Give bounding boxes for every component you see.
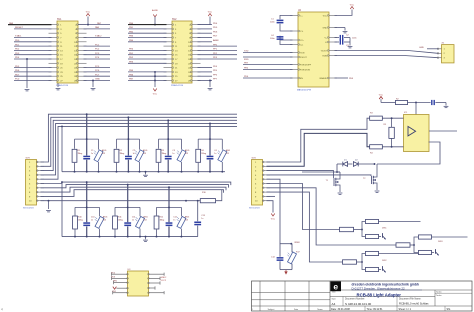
wire diode rail right [359, 163, 375, 165]
capacitor C15 [431, 100, 432, 105]
svg-text:VCC: VCC [153, 94, 158, 96]
svg-text:SIG 10X1G: SIG 10X1G [249, 208, 260, 210]
svg-text:INVALID: INVALID [319, 77, 327, 80]
svg-text:FORCEON: FORCEON [300, 69, 311, 71]
wire net PB1 [128, 28, 167, 30]
ground arrow AGND [285, 270, 287, 272]
pin V+ U2 [329, 37, 337, 39]
IC U3 [128, 271, 149, 296]
pin 6 SV2 [192, 32, 201, 34]
wire net PF7 [198, 80, 213, 82]
pin 11 SV2 [164, 45, 173, 47]
pin 3 SV4 [263, 170, 271, 172]
junction [361, 261, 363, 263]
resistor base DIS3 [396, 243, 410, 247]
photoresistor LDR2 [139, 139, 141, 150]
svg-text:Size:: Size: [332, 299, 337, 301]
svg-text:1Meg: 1Meg [160, 219, 165, 221]
svg-text:TXD: TXD [244, 51, 249, 53]
wire net PD4 [198, 24, 213, 26]
wire net PD2 to U3 [112, 273, 128, 275]
pin 27 SV2 [164, 80, 173, 82]
diode D1 [343, 162, 348, 167]
wire [348, 163, 353, 165]
resistor R1 1Meg [74, 139, 76, 149]
pin 18 SV2 [192, 58, 201, 60]
wire left drop [61, 126, 63, 171]
pin FORCEON U2 [290, 69, 298, 71]
junction [361, 229, 363, 231]
wire SV4 pin8 to stage B [267, 192, 343, 262]
resistor R12 1Meg [156, 207, 158, 215]
capacitor C1 [280, 15, 293, 19]
wire net PC5 [84, 67, 111, 69]
transistor Q2 BSS123 [371, 176, 373, 184]
wire bus line 5 [41, 126, 238, 179]
wire net PE3 [128, 62, 167, 64]
power symbol VCC (down) [271, 214, 275, 217]
wire lower bus line 2 [41, 185, 229, 188]
svg-text:4: 4 [1, 308, 3, 312]
svg-text:Title:: Title: [332, 291, 337, 294]
wire net AREF [198, 41, 213, 43]
wire net TXD [243, 52, 293, 54]
pin 22 SV2 [192, 67, 201, 69]
wire net PB7 [128, 80, 167, 82]
svg-text:GND2: GND2 [161, 277, 168, 279]
wire net PB0 [128, 24, 167, 26]
wire to transistor [379, 269, 382, 271]
svg-text:VCC: VCC [379, 95, 384, 97]
svg-text:R1OUT: R1OUT [300, 57, 308, 59]
pin 19 SV1 [49, 62, 58, 64]
pin C2+ U2 [290, 39, 298, 41]
wire group R12 top [157, 206, 182, 208]
svg-text:1n: 1n [91, 219, 93, 221]
wire to ground [48, 201, 50, 209]
svg-text:A905: A905 [185, 216, 189, 219]
wire net PA6 [84, 28, 111, 30]
svg-text:VCC2: VCC2 [161, 280, 167, 282]
connector SV1 [57, 21, 78, 83]
resistor base2 DIS2 [366, 267, 379, 271]
junction [197, 171, 199, 173]
wire net PF0 [198, 45, 238, 47]
pin 19 SV2 [164, 62, 173, 64]
photoresistor LDR11 [139, 207, 141, 216]
svg-text:Document Number:: Document Number: [345, 298, 365, 301]
ground [57, 83, 59, 87]
pin 24 SV2 [192, 71, 201, 73]
junction [48, 200, 50, 202]
resistor pullup DIS3 [419, 235, 432, 239]
wire net PE2 [128, 58, 167, 60]
svg-text:1Meg: 1Meg [120, 153, 125, 155]
resistor R11 1Meg [114, 207, 116, 215]
pin 6 SV4 [263, 183, 271, 185]
pin 5 SV1 [49, 32, 58, 34]
resistor base2 DIS3 [419, 250, 432, 254]
svg-text:013: 013 [185, 153, 188, 155]
svg-text:Sheet: 1 / 1: Sheet: 1 / 1 [399, 308, 412, 311]
wire to junction [354, 229, 363, 231]
pin 7 SV2 [164, 37, 173, 39]
pin 7 SV3 [37, 187, 45, 189]
junction [114, 236, 116, 238]
svg-text:1Meg: 1Meg [118, 219, 123, 221]
pin 9 SV4 [263, 195, 271, 197]
wire SV4 pin9 [267, 195, 276, 197]
wire U3 right [149, 273, 165, 275]
svg-text:XTAL1: XTAL1 [15, 35, 22, 38]
pin 14 SV2 [192, 49, 201, 51]
wire net PE0 to U3 [114, 282, 128, 284]
wire net T1OUT to X1 [335, 51, 439, 54]
wire junction [26, 59, 28, 88]
transistor DIS3 [435, 249, 437, 254]
wire net PB6 [128, 75, 167, 77]
revision table columns [259, 281, 261, 311]
svg-text:Name: Name [317, 309, 323, 311]
wire left drop bottom [61, 182, 63, 237]
junction [74, 171, 76, 173]
wire net PA8 [8, 24, 52, 26]
pin 9 SV1 [49, 41, 58, 43]
svg-text:RXD: RXD [244, 59, 249, 61]
wire Q1 drain [339, 172, 340, 179]
svg-text:1n: 1n [214, 153, 216, 155]
pin 23 SV2 [164, 71, 173, 73]
pin 12 SV1 [78, 45, 87, 47]
svg-text:GND: GND [323, 27, 328, 29]
svg-text:T1OUT: T1OUT [320, 50, 327, 52]
wire group R11 top [115, 206, 140, 208]
wire SV4 pin3 to Q1 gate [267, 171, 334, 178]
transistor DIS2 [382, 266, 384, 271]
ground [91, 88, 96, 90]
power symbol VCC [208, 14, 212, 17]
power symbol VCC (down) [113, 287, 117, 290]
pin 14 SV1 [78, 49, 87, 51]
wire net PD0 [14, 41, 52, 43]
svg-text:1n: 1n [173, 219, 175, 221]
wire bus line 4 [41, 123, 238, 174]
pin 2 SV1 [78, 24, 87, 26]
pin 3 X1 [438, 57, 442, 59]
wire net PD3 [14, 54, 52, 56]
wire SV4 pin4 to Q2 gate [267, 175, 372, 176]
svg-text:FORCEOFF: FORCEOFF [300, 64, 312, 66]
wire net PC6 [84, 71, 111, 73]
wire U3 pin VCC [119, 287, 128, 289]
wire SV4 pin 10 to VCC [267, 201, 274, 213]
pin 3 SV1 [49, 28, 58, 30]
svg-text:e: e [333, 281, 338, 291]
svg-text:RCB-88 Light Adapter: RCB-88 Light Adapter [357, 292, 402, 297]
pin 21 SV2 [164, 67, 173, 69]
svg-text:AGND: AGND [152, 9, 159, 12]
wire lower bus line 3 [41, 187, 227, 192]
wire bus line 3 [41, 120, 238, 170]
wire SV4 pin6 to stage A [267, 184, 340, 230]
pin 1 SV3 [37, 161, 45, 163]
wire pullup out [432, 236, 468, 238]
svg-text:SIG 10X1G: SIG 10X1G [23, 208, 34, 210]
svg-text:Time: 09:11:51: Time: 09:11:51 [367, 308, 384, 311]
wire net PC1 [84, 45, 111, 47]
svg-text:1n: 1n [132, 219, 134, 221]
wire to VCC below [154, 72, 156, 87]
ground [208, 88, 213, 90]
wire net PF4 [198, 67, 213, 69]
svg-text:1Meg: 1Meg [201, 153, 206, 155]
svg-text:Tasks:: Tasks: [436, 295, 442, 297]
wire net PE0 [128, 49, 167, 51]
wire net PB2 [128, 32, 167, 34]
pin C1- U2 [290, 30, 298, 32]
pin 13 SV1 [49, 49, 58, 51]
pin 2 SV4 [263, 165, 271, 167]
pin 13 SV2 [164, 49, 173, 51]
pin 7 SV1 [49, 37, 58, 39]
svg-text:100n: 100n [352, 37, 356, 39]
junction [158, 171, 160, 173]
junction [74, 236, 76, 238]
wire rail to Q1 [302, 171, 340, 173]
pin T1OUT U2 [329, 50, 337, 52]
svg-text:013: 013 [102, 153, 105, 155]
pin 10 SV1 [78, 41, 87, 43]
svg-text:1Meg: 1Meg [78, 153, 83, 155]
resistor R10 1Meg [74, 207, 76, 215]
svg-text:VCC: VCC [208, 12, 213, 14]
wire net RXD [243, 56, 293, 58]
connector SV3 [26, 160, 37, 206]
wire R5 bottom [391, 138, 393, 146]
svg-text:MAX3221CPW: MAX3221CPW [297, 89, 311, 92]
wire Q1 source to ground [339, 185, 340, 192]
pin 25 SV1 [49, 75, 58, 77]
wire opamp power [415, 103, 417, 115]
resistor base2 DIS1 [366, 234, 379, 238]
photoresistor LDR1 [98, 139, 100, 150]
pin C+ U2 [290, 14, 298, 16]
pin GND U2 [329, 27, 337, 29]
svg-text:R1IN: R1IN [322, 55, 327, 57]
photoresistor R17 [291, 244, 293, 253]
svg-text:VCC: VCC [350, 5, 355, 7]
pin 4 SV2 [192, 28, 201, 30]
resistor R3 [370, 116, 383, 120]
wire net PC2 [84, 49, 111, 51]
power symbol VCC [379, 97, 383, 100]
pin 21 SV1 [49, 67, 58, 69]
svg-text:A905: A905 [102, 149, 106, 152]
wire group R10 top [75, 206, 100, 208]
junction [116, 171, 118, 173]
pin 24 SV1 [78, 71, 87, 73]
pin V- U2 [329, 41, 337, 43]
pin INVALID U2 [329, 77, 337, 79]
pin 1 SV2 [164, 24, 173, 26]
wire net PA7 [88, 24, 110, 26]
svg-text:A905: A905 [103, 216, 107, 219]
wire AGND to SV2 pin 1 [154, 17, 156, 25]
wire net PC7 [84, 75, 111, 77]
power symbol VCC (down) [153, 89, 157, 92]
wire net PE1 [128, 54, 167, 56]
pin 2 SV3 [37, 165, 45, 167]
svg-text:RCB-88_0 rech0 Schlias: RCB-88_0 rech0 Schlias [399, 302, 429, 306]
svg-text:Tasks:: Tasks: [436, 292, 442, 294]
svg-text:VCC: VCC [271, 219, 276, 221]
junction VREF [290, 243, 292, 245]
ground [145, 172, 147, 175]
resistor R3 1Meg [158, 139, 160, 149]
pin 5 SV2 [164, 32, 173, 34]
wire net PD5 [198, 28, 213, 30]
wire up branch [414, 237, 418, 245]
capacitor C11 1n [127, 185, 129, 223]
pin 18 SV1 [78, 58, 87, 60]
wire sensor common rail bottom row [62, 236, 198, 238]
pin 28 SV1 [78, 80, 87, 82]
wire pullup out [379, 253, 421, 255]
svg-text:/RESET: /RESET [15, 27, 24, 29]
wire U3 right [149, 292, 165, 294]
wire group R4 top [198, 138, 222, 140]
pin 26 SV2 [192, 75, 201, 77]
capacitor C12 1n [168, 187, 170, 222]
wire VCC [335, 10, 353, 16]
wire R5 top [391, 118, 393, 127]
wire pullup out [379, 221, 421, 223]
connector X1 [442, 45, 455, 63]
svg-text:A905: A905 [226, 149, 230, 152]
pin 25 SV2 [164, 75, 173, 77]
wire net PC3 [84, 54, 111, 56]
pin C2- U2 [290, 44, 298, 46]
svg-text:1n: 1n [91, 153, 93, 155]
svg-text:Subject: Subject [268, 308, 275, 311]
power symbol VCC [350, 7, 354, 10]
capacitor C4 [280, 36, 293, 40]
capacitor C3 [335, 41, 340, 43]
wire net PF2 [198, 54, 238, 56]
op-amp U1 [404, 115, 430, 152]
wire rail to cap [381, 102, 396, 104]
resistor base DIS1 [340, 227, 354, 231]
svg-text:T1IN: T1IN [300, 52, 305, 54]
pin 28 SV2 [192, 80, 201, 82]
wire lower bus line 1 [41, 182, 231, 185]
svg-text:V-: V- [325, 42, 327, 44]
wire D1 to Q1 drain [337, 164, 340, 172]
resistor R2 rail [396, 100, 408, 104]
svg-text:S 448.24.00.101.00: S 448.24.00.101.00 [345, 302, 372, 306]
wire opamp pin2 to Q2 drain [377, 142, 440, 164]
wire group R3 top [159, 138, 182, 140]
svg-text:1n: 1n [172, 153, 174, 155]
pin 15 SV2 [164, 54, 173, 56]
pin 16 SV1 [78, 54, 87, 56]
pin FORCEOFF U2 [290, 64, 298, 66]
wire VREF node [280, 243, 291, 245]
pin 3 SV3 [37, 170, 45, 172]
svg-text:1Meg: 1Meg [78, 219, 83, 221]
pin 6 SV1 [78, 32, 87, 34]
wire to ground [209, 81, 211, 88]
svg-text:1n: 1n [201, 218, 203, 220]
wire net PD1 [14, 45, 52, 47]
pin 11 SV1 [49, 45, 58, 47]
pin 2 SV2 [192, 24, 201, 26]
wire net PD3 to U3 [112, 277, 128, 279]
resistor R4 1Meg [197, 139, 199, 149]
wire net PF6 [198, 75, 213, 77]
resistor R2 1Meg [116, 139, 118, 149]
capacitor C2 1n [127, 117, 129, 155]
svg-text:D-01277 Dresden, Glasewaldstra: D-01277 Dresden, Glasewaldstrasse 22 [352, 286, 406, 290]
pin 8 SV2 [192, 37, 201, 39]
svg-text:A905: A905 [185, 149, 189, 152]
wire Q2 drain [375, 164, 378, 177]
transistor Q1 BSS123 [333, 178, 335, 186]
resistor pullup DIS2 [366, 251, 379, 255]
pin 17 SV1 [49, 58, 58, 60]
wire net PE7 [243, 64, 293, 66]
wire sensor common rail top row [62, 171, 225, 173]
pin 1 X1 [438, 48, 442, 50]
logo dresden elektronik [330, 281, 341, 291]
wire net PF3 [198, 58, 238, 60]
pin 17 SV2 [164, 58, 173, 60]
wire net PE1 to U3 [113, 292, 128, 294]
pin 9 SV2 [164, 41, 173, 43]
wire net R1IN to X1 [335, 56, 439, 58]
wire bus line 2 [41, 117, 238, 166]
connector SV2 [172, 21, 192, 83]
svg-text:A905: A905 [143, 216, 147, 219]
pin 4 SV1 [78, 28, 87, 30]
wire net XTAL2 [84, 37, 111, 39]
wire to transistor [432, 252, 435, 254]
svg-text:013: 013 [103, 219, 106, 221]
ground [445, 103, 447, 106]
pin 8 SV4 [263, 191, 271, 193]
wire VCC rail [380, 99, 382, 102]
resistor pullup DIS1 [366, 219, 379, 223]
wire to ground [349, 38, 351, 46]
wire net XTAL1 [14, 37, 52, 39]
wire to junction [357, 261, 363, 263]
wire net GND to X1 pin 1 [427, 48, 438, 50]
pin T1IN U2 [290, 52, 298, 54]
pin 26 SV1 [78, 75, 87, 77]
ground [26, 87, 28, 89]
ground [375, 190, 380, 192]
wire to junction [410, 244, 414, 246]
wire SV4 pin7 to stage C [267, 188, 397, 245]
ground [348, 46, 353, 48]
wire SV4 pin2 to R4 [267, 133, 370, 166]
capacitor C2 [335, 37, 340, 39]
pin VCC U2 [329, 14, 337, 16]
wire net /RESET [14, 28, 52, 30]
svg-text:AREF: AREF [213, 39, 219, 42]
wire net PD6 [14, 71, 52, 73]
resistor R4 [370, 145, 383, 149]
